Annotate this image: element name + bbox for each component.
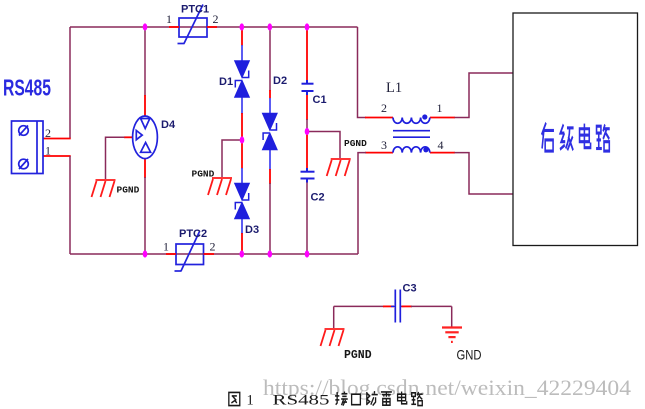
svg-text:C2: C2 (311, 192, 325, 204)
wire D2 top blue pin (269, 98, 271, 114)
svg-text:PGND: PGND (192, 169, 215, 180)
wire mid node to PGND (307, 132, 340, 159)
wire C1 bottom red stub (306, 95, 308, 121)
TVS diode D1 (235, 61, 249, 97)
wire D4 left to PGND (106, 137, 125, 179)
node top rail / C1 (305, 23, 310, 30)
wire D3 bottom blue pin (241, 219, 243, 235)
wire C1 top red stub from top rail (306, 28, 308, 81)
svg-text:2: 2 (45, 126, 51, 140)
wire bottom rail B-line (70, 253, 358, 255)
svg-text:D3: D3 (245, 224, 259, 236)
connector J1 RS485 body (12, 121, 44, 174)
svg-text:C3: C3 (403, 283, 417, 295)
svg-text:2: 2 (213, 12, 219, 26)
svg-text:1: 1 (247, 393, 254, 409)
svg-text:PTC2: PTC2 (179, 228, 207, 240)
svg-text:D4: D4 (161, 119, 176, 131)
wire C3 net right horizontal (411, 305, 452, 307)
wire left vertical from top rail to connector pin 2 (69, 27, 71, 139)
wire D1 top red stub (241, 28, 243, 46)
svg-text:1: 1 (166, 12, 172, 26)
wire D2 bottom blue pin (269, 150, 271, 171)
wire PGND drop at C3 left (333, 306, 335, 328)
wire D1 bottom red stub to node (241, 113, 243, 140)
wire D3 top red stub from node (241, 140, 243, 169)
wire top rail A-line (70, 26, 358, 28)
wire D2 bottom red stub (269, 169, 271, 184)
capacitor C3 (391, 290, 405, 323)
node D1-D3 (240, 136, 245, 143)
resistor PTC2 (175, 232, 204, 272)
ground PGND (D1-D3 node) (208, 178, 232, 195)
label rear-stage circuit (Chinese) (542, 123, 610, 151)
ground GND earth symbol (442, 328, 462, 342)
svg-text:C1: C1 (313, 94, 327, 106)
wire connector pin 1 stub (43, 155, 71, 157)
node top rail / D4 (143, 23, 148, 30)
wire D1 top blue pin (241, 45, 243, 61)
svg-text:D2: D2 (273, 75, 287, 87)
wire D2 branch from top rail (269, 27, 271, 91)
L1 polarity dot pin 1 side (422, 114, 427, 119)
wire L1 pin 1 red stub (430, 117, 455, 119)
node bottom rail / D4 (143, 250, 148, 257)
svg-text:RS485: RS485 (3, 75, 51, 101)
wire D4 top red stub (144, 95, 146, 117)
node top rail / D2 (268, 23, 273, 30)
wire D3 bottom red stub (241, 233, 243, 253)
wire D4 branch from top rail (144, 27, 146, 96)
wire D3 top blue pin (241, 168, 243, 184)
wire D4 left red stub (124, 136, 133, 138)
wire D2 branch to bottom rail (269, 183, 271, 254)
gas discharge tube D4 (133, 116, 158, 159)
svg-text:GND: GND (457, 347, 482, 363)
wire top rail drop to L1 pin 2 (358, 27, 367, 118)
svg-text:PGND: PGND (344, 349, 372, 362)
wire PTC1 right red stub (207, 26, 217, 28)
TVS diode D2 (263, 114, 277, 150)
svg-text:PGND: PGND (117, 185, 140, 196)
ground PGND (mid node near C2) (327, 159, 351, 176)
svg-text:2: 2 (381, 101, 387, 115)
wire left vertical from connector pin 1 to bottom rail (69, 156, 71, 254)
node top rail / D1 (240, 23, 245, 30)
wire D1 bottom blue pin (241, 97, 243, 114)
wire C3 net left horizontal (334, 305, 384, 307)
node bottom rail / D3 (240, 250, 245, 257)
svg-text:2: 2 (210, 240, 216, 254)
wire D4 bottom red stub (144, 159, 146, 179)
wire D2 top red stub (269, 90, 271, 99)
wire connector pin 2 stub (43, 138, 71, 140)
wire C1 to mid node (306, 119, 308, 132)
svg-text:3: 3 (381, 138, 387, 152)
svg-text:RS485: RS485 (273, 393, 330, 409)
wire D4 branch to bottom rail (144, 177, 146, 254)
svg-text:1: 1 (45, 144, 51, 158)
node bottom rail / D2 (268, 250, 273, 257)
wire PTC2 right red stub (204, 253, 215, 255)
svg-text:L1: L1 (386, 80, 402, 96)
resistor PTC1 (178, 5, 208, 44)
node mid C1-C2 (305, 128, 310, 135)
wire PTC2 left red stub (166, 253, 176, 255)
wire L1 pin 4 red stub (430, 152, 455, 154)
wire red stub to L1 pin 2 (365, 117, 393, 119)
caption figure 1 text (229, 392, 240, 405)
wire GND drop at C3 right (451, 306, 453, 327)
capacitor C1 (302, 80, 314, 95)
svg-text:1: 1 (163, 240, 169, 254)
svg-text:4: 4 (438, 138, 444, 152)
wire C3 right red stub (402, 305, 413, 307)
svg-text:PTC1: PTC1 (181, 4, 209, 16)
wire C2 bottom to bottom rail (306, 182, 308, 254)
svg-text:1: 1 (437, 101, 443, 115)
rear-stage circuit box U? (513, 13, 638, 246)
wire PTC1 left red stub (169, 26, 179, 28)
svg-text:PGND: PGND (344, 138, 367, 149)
node bottom rail / C2 (305, 250, 310, 257)
wire D1-D3 node to PGND (222, 140, 241, 177)
L1 polarity dot pin 4 side (423, 147, 428, 152)
wire L1 pin 3 red stub (365, 152, 393, 154)
common mode choke L1 (393, 118, 430, 153)
wire L1 pin 1 to rear box upper (455, 73, 514, 118)
wire bottom rail rise to L1 pin 3 (358, 153, 366, 254)
ground PGND (C3 left) (321, 329, 345, 346)
wire C3 left red stub (383, 305, 394, 307)
svg-text:D1: D1 (219, 76, 233, 88)
ground PGND (under D4) (92, 180, 116, 197)
TVS diode D3 (235, 184, 249, 219)
wire C2 top red stub from mid node (306, 132, 308, 169)
capacitor C2 (301, 168, 315, 183)
wire L1 pin 4 to rear box lower (455, 153, 514, 194)
